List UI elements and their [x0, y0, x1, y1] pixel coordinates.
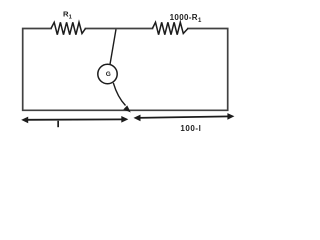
svg-text:100-l: 100-l — [180, 124, 201, 133]
svg-text:G: G — [106, 71, 111, 78]
svg-text:R1: R1 — [63, 10, 73, 21]
